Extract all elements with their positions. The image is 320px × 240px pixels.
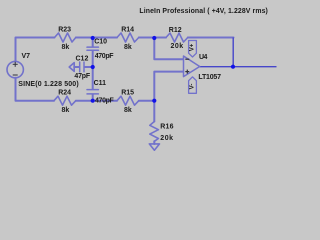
resistor R24 [54, 96, 76, 105]
resistor R12 [166, 33, 188, 42]
wire C12 left lead [74, 66, 79, 68]
svg-text:R24: R24 [58, 90, 71, 97]
wire R14 to node B [139, 37, 155, 39]
svg-text:8k: 8k [124, 44, 132, 51]
wire V7 bottom to R24 [16, 78, 55, 101]
svg-text:20k: 20k [160, 135, 173, 142]
op-amp minus input mark [185, 58, 189, 60]
wire C12 right lead to node E [84, 66, 92, 68]
voltage source V7 [7, 61, 23, 77]
wire node D down to R16 [153, 101, 155, 122]
wire op-amp output [200, 66, 277, 68]
svg-text:8k: 8k [62, 107, 70, 114]
junction node B [152, 36, 156, 40]
svg-text:V+: V+ [190, 43, 196, 51]
svg-text:U4: U4 [199, 54, 208, 61]
resistor R15 [117, 96, 139, 105]
wire C11 to node C [92, 95, 94, 101]
svg-text:R12: R12 [169, 27, 182, 34]
svg-text:LT1057: LT1057 [198, 74, 221, 81]
wire node D up to non-inverting input [154, 72, 183, 101]
op-amp U1 triangle [184, 56, 200, 77]
wire node A to R14 [93, 37, 117, 39]
wire node C to R15 [93, 100, 117, 102]
resistor R16 [150, 122, 159, 142]
capacitor C11 [87, 90, 98, 94]
wire R24 to node C [76, 100, 93, 102]
wire R12 right to feedback corner [188, 37, 234, 39]
capacitor C10 [87, 47, 98, 50]
svg-text:LineIn Professional ( +4V, 1.2: LineIn Professional ( +4V, 1.228V rms) [139, 8, 268, 15]
svg-text:R15: R15 [121, 90, 134, 97]
ground below R16 [149, 144, 159, 150]
junction node A [91, 36, 95, 40]
V7 minus mark [13, 74, 18, 76]
svg-text:R23: R23 [58, 27, 71, 34]
svg-text:C11: C11 [94, 80, 107, 87]
svg-text:SINE(0 1.228 500): SINE(0 1.228 500) [18, 81, 79, 88]
op-amp V- flag [189, 77, 197, 93]
junction node C [91, 99, 95, 103]
junction output node [231, 65, 235, 69]
op-amp plus input mark [185, 70, 189, 74]
capacitor C12 [80, 62, 84, 72]
junction node E [91, 65, 95, 69]
svg-text:470pF: 470pF [95, 97, 115, 104]
wire R16 to ground [153, 141, 155, 144]
op-amp V+ flag [189, 41, 197, 58]
junction node D [152, 99, 156, 103]
wire node B to R12 [154, 37, 166, 39]
svg-text:C12: C12 [76, 56, 89, 63]
ground at C12 [69, 63, 74, 72]
resistor R23 [55, 33, 76, 42]
svg-text:R14: R14 [121, 27, 134, 34]
svg-text:8k: 8k [62, 44, 70, 51]
svg-text:R16: R16 [160, 123, 173, 130]
V7 plus mark [13, 62, 18, 67]
wire top row left V7 to R23 [16, 38, 55, 62]
wire R15 to node D [139, 100, 155, 102]
svg-text:C10: C10 [94, 39, 107, 46]
svg-text:V-: V- [190, 84, 196, 90]
wire feedback vertical [232, 38, 234, 67]
wire node A down to C10 [92, 38, 94, 47]
wire C10 to node E to C11 [92, 51, 94, 89]
wire node B down to inverting input [154, 38, 183, 60]
svg-text:20k: 20k [171, 43, 184, 50]
svg-text:V7: V7 [22, 53, 31, 60]
resistor R14 [117, 33, 139, 42]
wire R23 to node A [76, 37, 93, 39]
svg-text:47pF: 47pF [74, 73, 90, 80]
svg-text:8k: 8k [124, 107, 132, 114]
svg-text:470pF: 470pF [95, 53, 115, 60]
